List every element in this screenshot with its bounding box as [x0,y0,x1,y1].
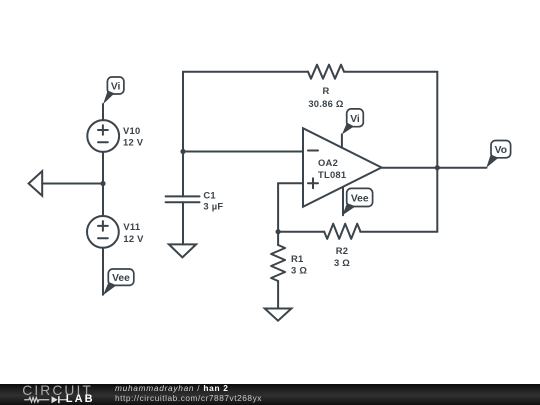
resistor R [308,65,344,109]
wire junction to R2 [278,231,324,233]
svg-text:3 Ω: 3 Ω [291,265,307,276]
node junction dot cap [180,149,185,154]
node junction dot R1 R2 [276,229,281,234]
resistor R1 [271,245,307,281]
svg-text:Vee: Vee [112,273,130,284]
svg-text:Vi: Vi [111,82,121,93]
ground C1 [169,244,196,257]
svg-text:V10: V10 [123,125,140,136]
svg-text:30.86 Ω: 30.86 Ω [308,98,344,109]
credit text line 2 [115,394,262,402]
wire plus input vertical [277,183,279,231]
svg-text:R2: R2 [336,245,348,256]
svg-text:OA2: OA2 [318,157,338,168]
footer bar [0,384,540,405]
svg-text:3 Ω: 3 Ω [334,257,350,268]
wire V11 to Vee [102,248,104,295]
svg-text:TL081: TL081 [318,169,346,180]
wire plus input horizontal [278,182,303,184]
voltage source V10 [87,120,143,152]
ground R1 [265,309,292,321]
wire R1 to ground [277,281,279,309]
op-amp OA2 [303,128,382,207]
svg-text:12 V: 12 V [123,137,144,148]
wire feedback top right horizontal [344,71,437,73]
wire R2 to right vertical [360,231,437,233]
svg-text:C1: C1 [203,190,215,201]
node Vi (left label) [103,77,124,104]
node junction dot output [435,165,440,170]
CircuitLab logo [22,384,93,397]
logo LAB [66,395,95,404]
node Vo label [486,141,510,168]
node junction dot left [100,181,105,186]
node Vee (op-amp supply label) [342,187,372,215]
logo resistor-diode mark [24,395,67,405]
svg-text:Vi: Vi [350,114,360,125]
wire C1 to ground [182,202,184,244]
svg-text:V11: V11 [123,221,140,232]
node Vee (left label) [103,269,134,295]
wire V10 to V11 [102,152,104,216]
wire Vi to V10 [102,104,104,120]
wire right vertical [436,72,438,232]
svg-text:Vee: Vee [351,194,369,205]
wire feedback top left horizontal [183,71,308,73]
capacitor C1 [166,190,224,212]
svg-text:3 µF: 3 µF [203,201,223,212]
svg-text:12 V: 12 V [123,233,144,244]
voltage source V11 [87,216,144,248]
ground left [29,171,43,196]
wire to C1 [182,152,184,197]
wire junction to ground [42,183,103,185]
wire junction to R1 [277,232,279,245]
wire minus input [183,151,303,153]
svg-text:Vo: Vo [495,145,507,156]
credit text line 1 [115,384,229,392]
svg-text:R1: R1 [291,253,303,264]
wire output [382,167,487,169]
node Vi (op-amp supply label) [342,109,363,148]
svg-text:R: R [322,85,329,96]
wire feedback top left vertical [182,72,184,152]
resistor R2 [324,224,360,268]
